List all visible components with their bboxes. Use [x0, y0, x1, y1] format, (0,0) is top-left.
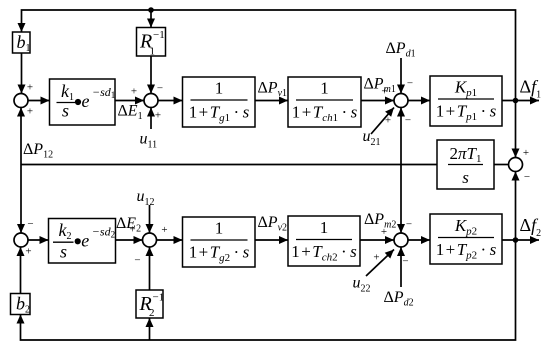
wire f1 down into S7 [515, 101, 517, 158]
svg-text:Δf1: Δf1 [520, 77, 542, 101]
wire S2 to block G1 [158, 100, 183, 102]
block b2 [11, 294, 31, 315]
node dot f1 [513, 98, 519, 104]
block R2 inverse [136, 290, 163, 318]
summing junction S2 [144, 94, 158, 108]
svg-text:e: e [81, 230, 89, 250]
svg-text:e: e [82, 91, 90, 111]
svg-text:+: + [161, 224, 167, 236]
svg-text:ΔPd1: ΔPd1 [386, 40, 416, 60]
wire S4 to block K2 [28, 239, 49, 241]
svg-text:ΔE2: ΔE2 [116, 215, 141, 235]
svg-text:+: + [385, 115, 391, 127]
wire u21 input to S3 [371, 108, 394, 135]
block T: 2piT1/s tie-line [437, 140, 494, 189]
wire bottom line tap up into R2 [149, 318, 151, 340]
wire R2 up into S5 [149, 247, 151, 290]
summing junction S3 [394, 94, 408, 108]
block K1: k1/s * e^-sd1 [50, 79, 116, 125]
svg-text:1: 1 [320, 79, 329, 98]
wire dP12 horizontal from block T to left column [21, 164, 437, 166]
wire R1 to summing junction S2 [150, 56, 152, 94]
wire S5 to block G2 [157, 239, 183, 241]
svg-text:ΔPd2: ΔPd2 [384, 289, 414, 309]
svg-text:−: − [406, 219, 412, 231]
svg-text:+: + [523, 147, 529, 159]
svg-text:2: 2 [149, 307, 155, 319]
wire K2 to summing junction S5 [116, 239, 143, 241]
wire C1 to summing junction S3 [361, 100, 394, 102]
wire b1 to summing junction S1 [21, 53, 23, 94]
svg-text:−: − [524, 171, 530, 183]
svg-text:ΔPv2: ΔPv2 [258, 214, 288, 234]
wire dP12 up into S1 [20, 108, 22, 165]
svg-text:u11: u11 [140, 131, 158, 151]
svg-text:ΔP12: ΔP12 [23, 141, 53, 161]
svg-text:s: s [62, 101, 69, 121]
wire S1 to block K1 [28, 100, 50, 102]
wire P1 output f1 [502, 100, 539, 102]
svg-text:ΔPv1: ΔPv1 [258, 79, 288, 99]
summing junction S4 [14, 233, 28, 247]
wire C2 to summing junction S6 [360, 239, 394, 241]
block G2: 1/(1+Tg2 s) [183, 217, 256, 267]
wire tie-line signal down into S6 [400, 165, 402, 234]
summing junction S7 [509, 158, 523, 172]
summing junction S1 [14, 94, 28, 108]
svg-text:Δf2: Δf2 [520, 215, 542, 239]
block P1: Kp1/(1+Tp1 s) [430, 76, 502, 126]
svg-text:+: + [25, 246, 31, 258]
wire S7 to block T tie-line [494, 164, 509, 166]
block G1: 1/(1+Tg1 s) [183, 77, 256, 127]
svg-text:ΔE1: ΔE1 [118, 103, 143, 123]
wire u22 input to S6 [366, 250, 394, 277]
svg-text:u22: u22 [353, 275, 371, 295]
wire u12 input to S5 [149, 205, 151, 233]
svg-text:1: 1 [320, 218, 329, 237]
wire dP12 down into S4 [20, 165, 22, 234]
svg-text:−: − [402, 256, 408, 268]
svg-text:+: + [155, 110, 161, 122]
wire G1 to C1 [255, 100, 288, 102]
svg-text:+: + [131, 86, 137, 98]
svg-text:ΔPm1: ΔPm1 [364, 76, 396, 96]
svg-text:ΔPm2: ΔPm2 [364, 211, 396, 231]
svg-text:−1: −1 [153, 292, 165, 304]
wire top line tap down into R1 [150, 10, 152, 28]
node dot f2 [513, 237, 519, 243]
block K2: k2/s * e^-sd2 [49, 219, 116, 264]
wire G2 to C2 [255, 239, 288, 241]
wire S3 to block P1 [408, 100, 430, 102]
svg-text:u12: u12 [137, 188, 155, 208]
summing junction S5 [143, 233, 157, 247]
svg-text:+: + [373, 252, 379, 264]
wire S6 to block P2 [408, 239, 430, 241]
svg-text:−: − [407, 78, 413, 90]
node dot R1 tap on top line [148, 7, 154, 13]
block R1 inverse [137, 28, 166, 57]
wire K1 to summing junction S2 [115, 100, 144, 102]
block P2: Kp2/(1+Tp2 s) [430, 214, 502, 264]
svg-text:s: s [60, 242, 67, 262]
wire u11 input to S2 [150, 108, 152, 130]
svg-text:1: 1 [215, 79, 224, 98]
wire f2 up into S7 [515, 172, 517, 241]
block C1: 1/(1+Tch1 s) [288, 77, 361, 127]
svg-text:+: + [27, 106, 33, 118]
svg-text:u21: u21 [363, 128, 381, 148]
svg-text:−: − [27, 218, 33, 230]
block b1 [13, 32, 31, 53]
svg-text:1: 1 [150, 46, 156, 58]
wire dP_d1 input to S3 [400, 58, 402, 94]
svg-text:+: + [27, 82, 33, 94]
svg-text:−: − [134, 255, 140, 267]
wire P2 output f2 [502, 239, 539, 241]
svg-text:−1: −1 [153, 29, 165, 41]
wire bottom feedback from node f2 down and across to b2 [21, 240, 516, 340]
svg-text:s: s [462, 168, 469, 187]
svg-text:1: 1 [215, 219, 224, 238]
summing junction S6 [394, 233, 408, 247]
wire top feedback from node f1 up and across to b1 [22, 10, 516, 101]
block C2: 1/(1+Tch2 s) [288, 216, 360, 266]
wire b2 up into S4 [20, 247, 22, 294]
wire tie-line signal up into S3 [400, 108, 402, 165]
svg-text:−: − [157, 83, 163, 95]
wire dP_d2 input to S6 [400, 247, 402, 287]
svg-text:−: − [405, 115, 411, 127]
